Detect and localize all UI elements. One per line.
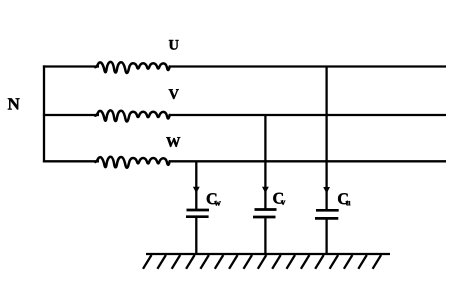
- node U label: [169, 40, 179, 50]
- wire: V phase, bus to inductor: [43, 114, 99, 116]
- capacitor Cw: [186, 210, 209, 217]
- current arrow (Cv branch): [262, 187, 269, 194]
- node N label: [8, 98, 20, 109]
- wire: neutral bus (left vertical): [43, 65, 45, 162]
- node W label: [166, 137, 180, 147]
- wire: W phase, bus to inductor: [43, 160, 99, 162]
- wire: Cv to ground: [264, 218, 266, 254]
- label Cu: [338, 193, 348, 204]
- wire: Cw tap from W line: [195, 161, 197, 209]
- label Cv: [273, 193, 283, 204]
- label Cw: [207, 193, 217, 204]
- wire: Cv tap from V line: [264, 115, 266, 209]
- current arrow (Cu branch): [323, 187, 330, 194]
- node V label: [169, 89, 179, 99]
- wire: U phase, inductor to right end: [169, 65, 446, 67]
- capacitor Cu: [315, 210, 339, 218]
- wire: U phase, bus to inductor: [43, 65, 99, 67]
- inductor (V phase): [95, 110, 169, 121]
- wire: W phase, inductor to right end: [169, 160, 446, 162]
- ground bar: [146, 253, 390, 255]
- capacitor Cv: [253, 210, 277, 218]
- wire: V phase, inductor to right end: [169, 114, 446, 116]
- inductor (U phase): [95, 62, 169, 73]
- current arrow (Cw branch): [193, 187, 200, 194]
- inductor (W phase): [95, 157, 169, 168]
- ground (earth) symbol: [143, 254, 390, 269]
- wire: Cu to ground: [325, 220, 327, 255]
- wire: Cu tap from U line: [325, 67, 327, 211]
- wire: Cw to ground: [195, 218, 197, 254]
- ground hatch strokes: [143, 255, 152, 269]
